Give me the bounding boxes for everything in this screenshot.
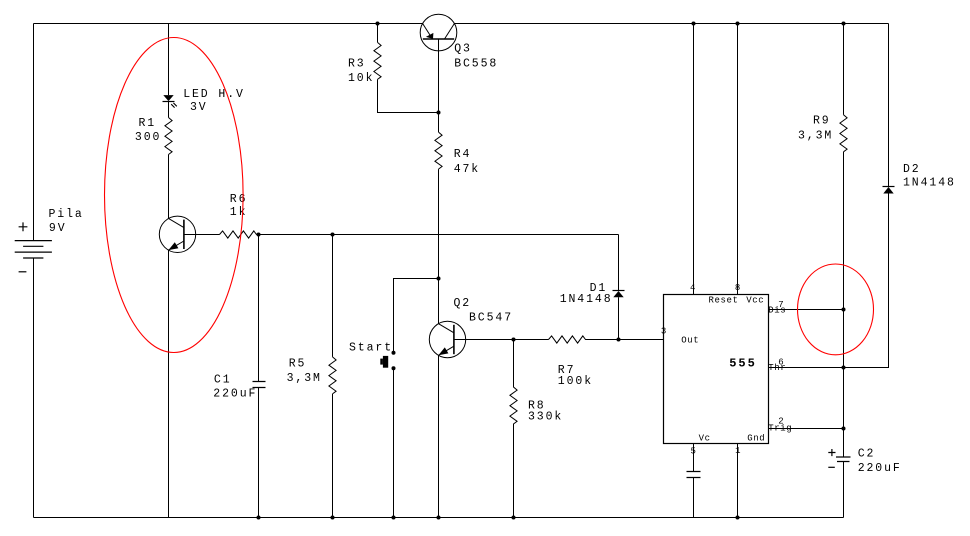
U1 label 555: [729, 356, 757, 370]
R9 label: [798, 114, 833, 142]
svg-text:1N4148: 1N4148: [903, 177, 956, 190]
wire pin1 Gnd line: [737, 444, 739, 518]
wire left rail upper: [33, 24, 35, 241]
wire C1 branch lower: [258, 388, 260, 518]
wire pin5 upper: [693, 444, 695, 472]
resistor R4 47k: [435, 132, 442, 169]
wire Start branch lower: [393, 368, 395, 517]
wire right rail: [844, 24, 889, 368]
wire C1 branch upper: [258, 235, 260, 382]
svg-text:R4: R4: [454, 148, 472, 161]
svg-text:Gnd: Gnd: [747, 434, 765, 444]
svg-text:Q2: Q2: [454, 297, 472, 310]
svg-text:47k: 47k: [454, 163, 480, 176]
svg-text:Vcc: Vcc: [746, 296, 764, 306]
node junction pin4 top rail: [692, 22, 696, 26]
svg-text:D2: D2: [903, 163, 921, 176]
Start label: [349, 341, 393, 354]
capacitor C3 control: [687, 472, 701, 478]
node junction Start bottom rail: [392, 516, 396, 520]
svg-text:220uF: 220uF: [858, 462, 902, 475]
resistor R1 300: [165, 118, 172, 155]
wire R9 lower to C2: [843, 152, 845, 457]
node junction Thr/D2: [842, 366, 846, 370]
svg-text:3,3M: 3,3M: [798, 129, 833, 142]
Q2 label: [454, 297, 514, 325]
wire R5 branch upper: [332, 235, 334, 357]
C2 label: [858, 448, 902, 475]
node junction R5 top: [331, 233, 335, 237]
node junction Q2 bottom rail: [437, 516, 441, 520]
R5 label: [287, 357, 322, 385]
R7 label: [558, 364, 593, 388]
svg-text:3,3M: 3,3M: [287, 372, 322, 385]
wire R3 upper: [377, 24, 379, 43]
C2 minus sign: [828, 466, 835, 468]
node junction R3 top rail: [376, 22, 380, 26]
transistor Q2 BC547: [429, 321, 465, 357]
diode D2 1N4148: [883, 187, 895, 194]
svg-text:Reset: Reset: [709, 296, 739, 306]
U1 pin label Vc: [699, 434, 711, 444]
svg-text:Start: Start: [349, 341, 393, 354]
node junction R9 top rail: [842, 22, 846, 26]
C1 label: [213, 374, 257, 401]
wire Q2 emitter to bottom rail: [438, 355, 440, 517]
wire Q1 base lead: [184, 234, 220, 236]
svg-text:10k: 10k: [348, 72, 374, 85]
node junction Q2 base/R8/R7: [512, 338, 516, 342]
svg-text:1N4148: 1N4148: [560, 293, 613, 306]
U1 pin label Out: [681, 336, 699, 346]
svg-text:Vc: Vc: [699, 434, 711, 444]
wire Q2 base lead: [454, 339, 549, 341]
svg-text:R5: R5: [289, 357, 307, 370]
resistor R6 1k: [220, 231, 259, 238]
wire left rail lower: [33, 258, 35, 518]
wire R1 to Q1 collector: [168, 155, 170, 219]
wire Q3 base lead down: [438, 39, 440, 113]
svg-text:C1: C1: [214, 374, 232, 387]
battery plus sign: [19, 222, 28, 231]
svg-text:R6: R6: [230, 193, 248, 206]
battery B1 Pila 9V: [15, 241, 52, 258]
node junction R6/C1: [257, 233, 261, 237]
wire C2 lower: [843, 462, 845, 518]
resistor R7 100k: [549, 336, 619, 343]
svg-text:C2: C2: [858, 448, 876, 461]
wire R3 lower to junction: [378, 79, 439, 112]
wire top rail right segment: [454, 23, 888, 25]
svg-text:1: 1: [735, 446, 741, 456]
svg-text:2: 2: [778, 417, 784, 427]
node junction R3/R4: [437, 111, 441, 115]
node junction pin1 bottom rail: [736, 516, 740, 520]
wire top rail left segment: [34, 23, 423, 25]
transistor Q3 BC558: [420, 14, 457, 51]
U1 pin number 7: [778, 300, 784, 310]
U1 pin label Vcc: [746, 296, 764, 306]
R3 label: [348, 57, 374, 85]
resistor R5 3,3M: [329, 357, 336, 394]
U1 pin number 2: [778, 417, 784, 427]
node junction R7/D1/pin3: [617, 338, 621, 342]
R4 label: [454, 148, 480, 176]
LED value label: [183, 88, 245, 114]
U1 pin number 6: [778, 358, 784, 368]
wire LED branch upper: [168, 24, 170, 96]
svg-text:9V: 9V: [49, 222, 67, 235]
resistor R9 3,3M: [840, 115, 847, 152]
wire node row y=234: [259, 234, 619, 236]
node junction Trig/C2: [842, 427, 846, 431]
U1 pin label Reset: [709, 296, 739, 306]
U1 pin label Thr: [768, 363, 786, 373]
node junction R5 bottom rail: [331, 516, 335, 520]
svg-text:300: 300: [135, 131, 161, 144]
wire R4 to Q2 collector: [438, 169, 440, 324]
annotation red ellipse around flasher: [105, 38, 244, 353]
battery minus sign: [19, 271, 27, 273]
wire pin5 lower: [693, 478, 695, 518]
R8 label: [528, 399, 563, 423]
svg-text:100k: 100k: [558, 375, 593, 388]
battery label Pila 9V: [49, 208, 84, 235]
U1 pin label Trig: [768, 424, 792, 434]
wire R5 branch lower: [332, 394, 334, 518]
wire bottom rail: [34, 517, 844, 519]
node junction C1 bottom rail: [257, 516, 261, 520]
wire Start branch top: [394, 279, 439, 353]
diode D1 1N4148: [613, 235, 625, 340]
capacitor C2 220uF: [836, 457, 851, 462]
annotation red ellipse around pin7: [798, 264, 874, 355]
LED D3 LED H.V: [163, 95, 177, 108]
svg-text:BC547: BC547: [469, 311, 513, 324]
svg-text:R3: R3: [348, 57, 366, 70]
wire R9 upper: [843, 24, 845, 115]
resistor R8 330k: [510, 340, 517, 518]
wire LED to R1: [168, 102, 170, 118]
R6 label: [230, 193, 248, 219]
switch Start pushbutton: [380, 351, 395, 371]
svg-text:3: 3: [661, 327, 667, 337]
D1 label: [560, 282, 613, 306]
node junction Dis/R9: [842, 308, 846, 312]
svg-text:Q3: Q3: [454, 42, 472, 55]
U1 pin number 1: [735, 446, 741, 456]
U1 pin label Dis: [768, 306, 786, 316]
wire pin3 to 555: [619, 339, 664, 341]
wire pin8 line: [737, 24, 739, 295]
svg-text:LED H.V: LED H.V: [183, 88, 245, 101]
op-amp U1 555 timer body: [664, 295, 769, 444]
Q3 label: [454, 42, 498, 70]
wire pin4 line: [693, 24, 695, 295]
svg-text:R9: R9: [813, 114, 831, 127]
U1 pin number 5: [691, 446, 697, 456]
U1 pin label Gnd: [747, 434, 765, 444]
C2 plus sign: [828, 449, 835, 456]
svg-text:330k: 330k: [528, 411, 563, 424]
wire junction to R4: [438, 113, 440, 133]
resistor R3 10k: [374, 42, 381, 79]
wire pin6 Thr line: [769, 367, 889, 369]
svg-text:1k: 1k: [230, 206, 248, 219]
U1 pin number 4: [690, 283, 696, 293]
svg-text:Out: Out: [681, 336, 699, 346]
U1 pin number 3: [661, 327, 667, 337]
D2 label: [903, 163, 956, 190]
svg-text:BC558: BC558: [454, 58, 498, 71]
svg-text:220uF: 220uF: [213, 387, 257, 400]
capacitor C1 220uF: [253, 382, 266, 388]
svg-text:555: 555: [729, 356, 757, 370]
node junction Start/R4: [437, 277, 441, 281]
node junction pin8 top rail: [736, 22, 740, 26]
svg-text:3V: 3V: [190, 101, 208, 114]
svg-text:6: 6: [778, 358, 784, 368]
node junction R8 bottom rail: [512, 516, 516, 520]
R1 label: [135, 117, 161, 144]
transistor Q1: [159, 216, 195, 252]
wire pin7 Dis line: [769, 309, 844, 311]
U1 pin number 8: [735, 283, 741, 293]
wire Q1 emitter to bottom rail: [168, 250, 170, 517]
svg-text:R1: R1: [139, 117, 157, 130]
svg-text:7: 7: [778, 300, 784, 310]
wire pin2 Trig line: [769, 428, 844, 430]
svg-text:Pila: Pila: [49, 208, 84, 221]
